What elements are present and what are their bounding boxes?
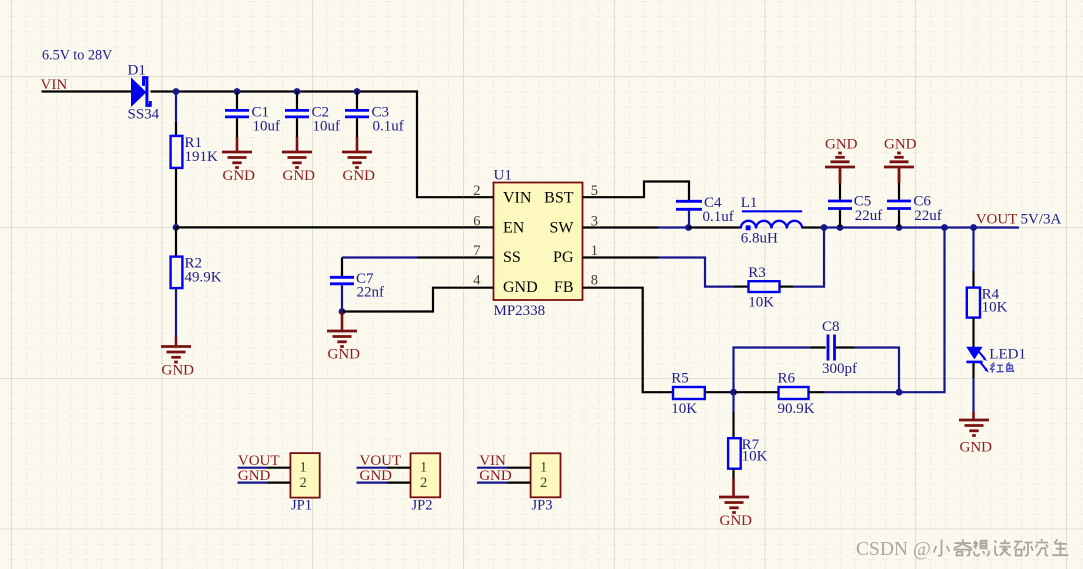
wire JP1 pin1 with net label VOUT <box>238 467 268 469</box>
connector JP1 <box>290 453 319 513</box>
svg-text:JP2: JP2 <box>412 498 433 514</box>
capacitor C6 22uf <box>887 167 942 231</box>
wire diode cathode to corner and down to U1 VIN pin <box>151 92 464 198</box>
pin 3 SW <box>583 226 613 228</box>
ground GND above C5 (inverted) <box>825 153 855 167</box>
wire C8 loop left <box>734 348 810 393</box>
wire C8 loop right <box>836 346 855 348</box>
wire JP3 pin1 with net label VIN <box>477 467 508 469</box>
ground GND under R7 <box>719 497 749 513</box>
svg-text:PG: PG <box>553 249 574 266</box>
capacitor C2 10uf <box>285 88 340 151</box>
resistor R1 191K <box>171 135 218 168</box>
svg-text:JP3: JP3 <box>532 498 553 514</box>
svg-text:GND: GND <box>343 168 376 184</box>
svg-text:LED1: LED1 <box>989 346 1026 362</box>
svg-text:300pf: 300pf <box>822 361 857 377</box>
wire VIN to diode anode <box>42 90 133 92</box>
svg-text:GND: GND <box>960 440 993 456</box>
wire JP1 pin2 with net label GND <box>238 482 268 484</box>
svg-text:10K: 10K <box>748 294 774 310</box>
svg-text:GND: GND <box>283 168 316 184</box>
svg-text:EN: EN <box>503 220 525 237</box>
svg-text:D1: D1 <box>128 63 146 79</box>
svg-text:1: 1 <box>540 460 547 476</box>
svg-text:GND: GND <box>162 363 195 379</box>
wire BST to C4 <box>613 182 690 201</box>
watermark chinese characters <box>934 539 1069 556</box>
svg-text:GND: GND <box>479 468 512 484</box>
svg-text:GND: GND <box>884 136 917 152</box>
svg-text:90.9K: 90.9K <box>778 401 815 417</box>
svg-text:5V/3A: 5V/3A <box>1021 211 1062 227</box>
svg-text:10K: 10K <box>982 300 1008 316</box>
svg-text:GND: GND <box>328 347 361 363</box>
connector JP3 <box>531 453 561 513</box>
svg-text:R6: R6 <box>778 370 796 386</box>
connector JP2 <box>411 453 441 513</box>
wire R7 to ground <box>732 469 734 479</box>
svg-text:GND: GND <box>223 168 256 184</box>
svg-text:22uf: 22uf <box>855 208 883 224</box>
ground GND under LED1 <box>959 420 989 436</box>
wire rail down to R4 <box>972 228 974 272</box>
node junction dot C8/R6 right <box>896 389 903 396</box>
svg-text:191K: 191K <box>185 149 219 165</box>
svg-text:0.1uf: 0.1uf <box>703 209 734 225</box>
svg-text:10uf: 10uf <box>253 119 281 135</box>
inductor L1 6.8uH <box>741 195 803 247</box>
svg-text:R3: R3 <box>748 265 766 281</box>
wire R5 to junction <box>705 391 734 393</box>
wire junction down to R7 <box>732 392 734 412</box>
svg-text:VIN: VIN <box>503 190 532 207</box>
wire R1 to EN junction <box>175 168 177 228</box>
svg-text:6: 6 <box>473 213 480 229</box>
pin 4 GND <box>464 287 494 289</box>
svg-text:22uf: 22uf <box>914 208 942 224</box>
svg-text:5: 5 <box>591 183 598 199</box>
wire VOUT rail <box>824 226 1019 228</box>
wire C7 junction to ground <box>341 312 344 331</box>
wire junction to R6 <box>734 391 779 393</box>
capacitor C1 10uf <box>225 88 280 151</box>
wire JP2 pin2 with net label GND <box>357 482 388 484</box>
ground GND under R2 <box>161 347 191 363</box>
svg-text:VOUT: VOUT <box>360 453 402 469</box>
svg-text:VOUT: VOUT <box>238 453 280 469</box>
svg-text:1: 1 <box>591 243 598 259</box>
svg-text:L1: L1 <box>741 195 758 211</box>
pin 1 PG <box>583 256 613 258</box>
svg-text:R5: R5 <box>671 370 689 386</box>
svg-text:GND: GND <box>503 279 538 296</box>
node junction dot under C7 <box>339 308 346 315</box>
pin 8 FB <box>583 287 613 289</box>
ground GND under C1 <box>222 152 252 168</box>
pin 5 BST <box>583 196 613 198</box>
svg-text:GND: GND <box>825 136 858 152</box>
svg-text:BST: BST <box>544 190 574 207</box>
ground GND under C3 <box>342 152 372 168</box>
wire FB to R5 <box>613 288 674 393</box>
svg-text:GND: GND <box>720 513 753 529</box>
svg-text:6.5V to 28V: 6.5V to 28V <box>42 48 113 64</box>
wire SW to inductor <box>613 226 659 228</box>
svg-text:GND: GND <box>360 468 393 484</box>
wire junction down to R2 <box>175 227 177 256</box>
ground GND under C7 <box>327 331 357 347</box>
svg-text:VIN: VIN <box>479 453 506 469</box>
svg-text:C8: C8 <box>822 319 840 335</box>
wire EN row to U1 pin 6 <box>176 226 464 228</box>
node junction dot R3 riser <box>821 224 828 231</box>
node junction dot rail/R6 riser <box>941 224 948 231</box>
wire junction to U1 GND pin 4 <box>342 288 464 312</box>
resistor R7 10K <box>728 437 768 469</box>
resistor R5 10K <box>671 370 705 417</box>
svg-text:VOUT: VOUT <box>976 211 1018 227</box>
svg-text:2: 2 <box>420 475 427 491</box>
capacitor C3 0.1uf <box>345 88 404 151</box>
svg-text:2: 2 <box>473 183 480 199</box>
svg-text:4: 4 <box>473 273 481 289</box>
wire R2 to ground <box>175 288 177 337</box>
ground GND under C2 <box>282 152 312 168</box>
pin 6 EN <box>464 226 494 228</box>
resistor R2 49.9K <box>171 256 222 289</box>
svg-text:7: 7 <box>473 243 480 259</box>
svg-text:SW: SW <box>550 220 575 237</box>
svg-text:2: 2 <box>540 475 547 491</box>
diode D1 SS34 <box>128 63 160 123</box>
pin 2 VIN <box>464 196 494 198</box>
wire inductor to VOUT rail <box>802 226 824 228</box>
svg-text:1: 1 <box>300 460 307 476</box>
svg-text:FB: FB <box>554 279 574 296</box>
wire PG to R3 <box>613 256 659 258</box>
wire JP3 pin2 with net label GND <box>477 482 508 484</box>
svg-text:1: 1 <box>420 460 427 476</box>
svg-text:U1: U1 <box>494 168 512 184</box>
LED LED1 red <box>966 346 1026 372</box>
svg-text:3: 3 <box>591 213 598 229</box>
capacitor C8 300pf <box>822 319 857 377</box>
svg-text:10uf: 10uf <box>313 119 341 135</box>
svg-text:49.9K: 49.9K <box>185 269 222 285</box>
ground GND above C6 (inverted) <box>884 153 914 167</box>
op-amp U1 MP2338 body <box>494 168 583 320</box>
svg-text:CSDN @: CSDN @ <box>856 539 931 560</box>
wire SS pin to C7 <box>417 256 464 258</box>
capacitor C5 22uf <box>828 167 882 231</box>
node junction dot EN row <box>173 224 180 231</box>
resistor R4 10K <box>967 286 1008 317</box>
capacitor C7 22nf <box>330 271 384 312</box>
wire JP2 pin1 with net label VOUT <box>357 467 388 469</box>
wire R3 to VOUT rail <box>780 286 794 288</box>
wire R6 to VOUT riser <box>809 391 825 393</box>
node junction dot R4 branch <box>970 224 977 231</box>
svg-text:GND: GND <box>238 468 271 484</box>
resistor R3 10K <box>748 265 779 311</box>
label red color (hong se) <box>990 362 1013 372</box>
svg-text:MP2338: MP2338 <box>494 303 546 319</box>
svg-text:2: 2 <box>300 475 307 491</box>
node junction dot R5/R6/R7/C8 <box>730 389 737 396</box>
node junction dot at R1 branch <box>173 88 180 95</box>
svg-text:6.8uH: 6.8uH <box>741 230 778 246</box>
svg-text:JP1: JP1 <box>291 498 312 514</box>
svg-text:SS: SS <box>503 249 521 266</box>
wire R4 to LED <box>972 318 974 347</box>
wire LED to ground <box>972 363 974 378</box>
svg-text:22nf: 22nf <box>357 285 385 301</box>
svg-text:10K: 10K <box>742 449 768 465</box>
svg-text:8: 8 <box>591 273 598 289</box>
svg-text:SS34: SS34 <box>128 107 160 123</box>
resistor R6 90.9K <box>778 370 815 417</box>
pin 7 SS <box>464 256 494 258</box>
svg-text:10K: 10K <box>671 401 697 417</box>
capacitor C4 0.1uf <box>676 195 734 228</box>
wire down to R1 <box>175 92 177 123</box>
svg-text:0.1uf: 0.1uf <box>373 119 404 135</box>
node junction dot at C4/SW <box>685 224 692 231</box>
